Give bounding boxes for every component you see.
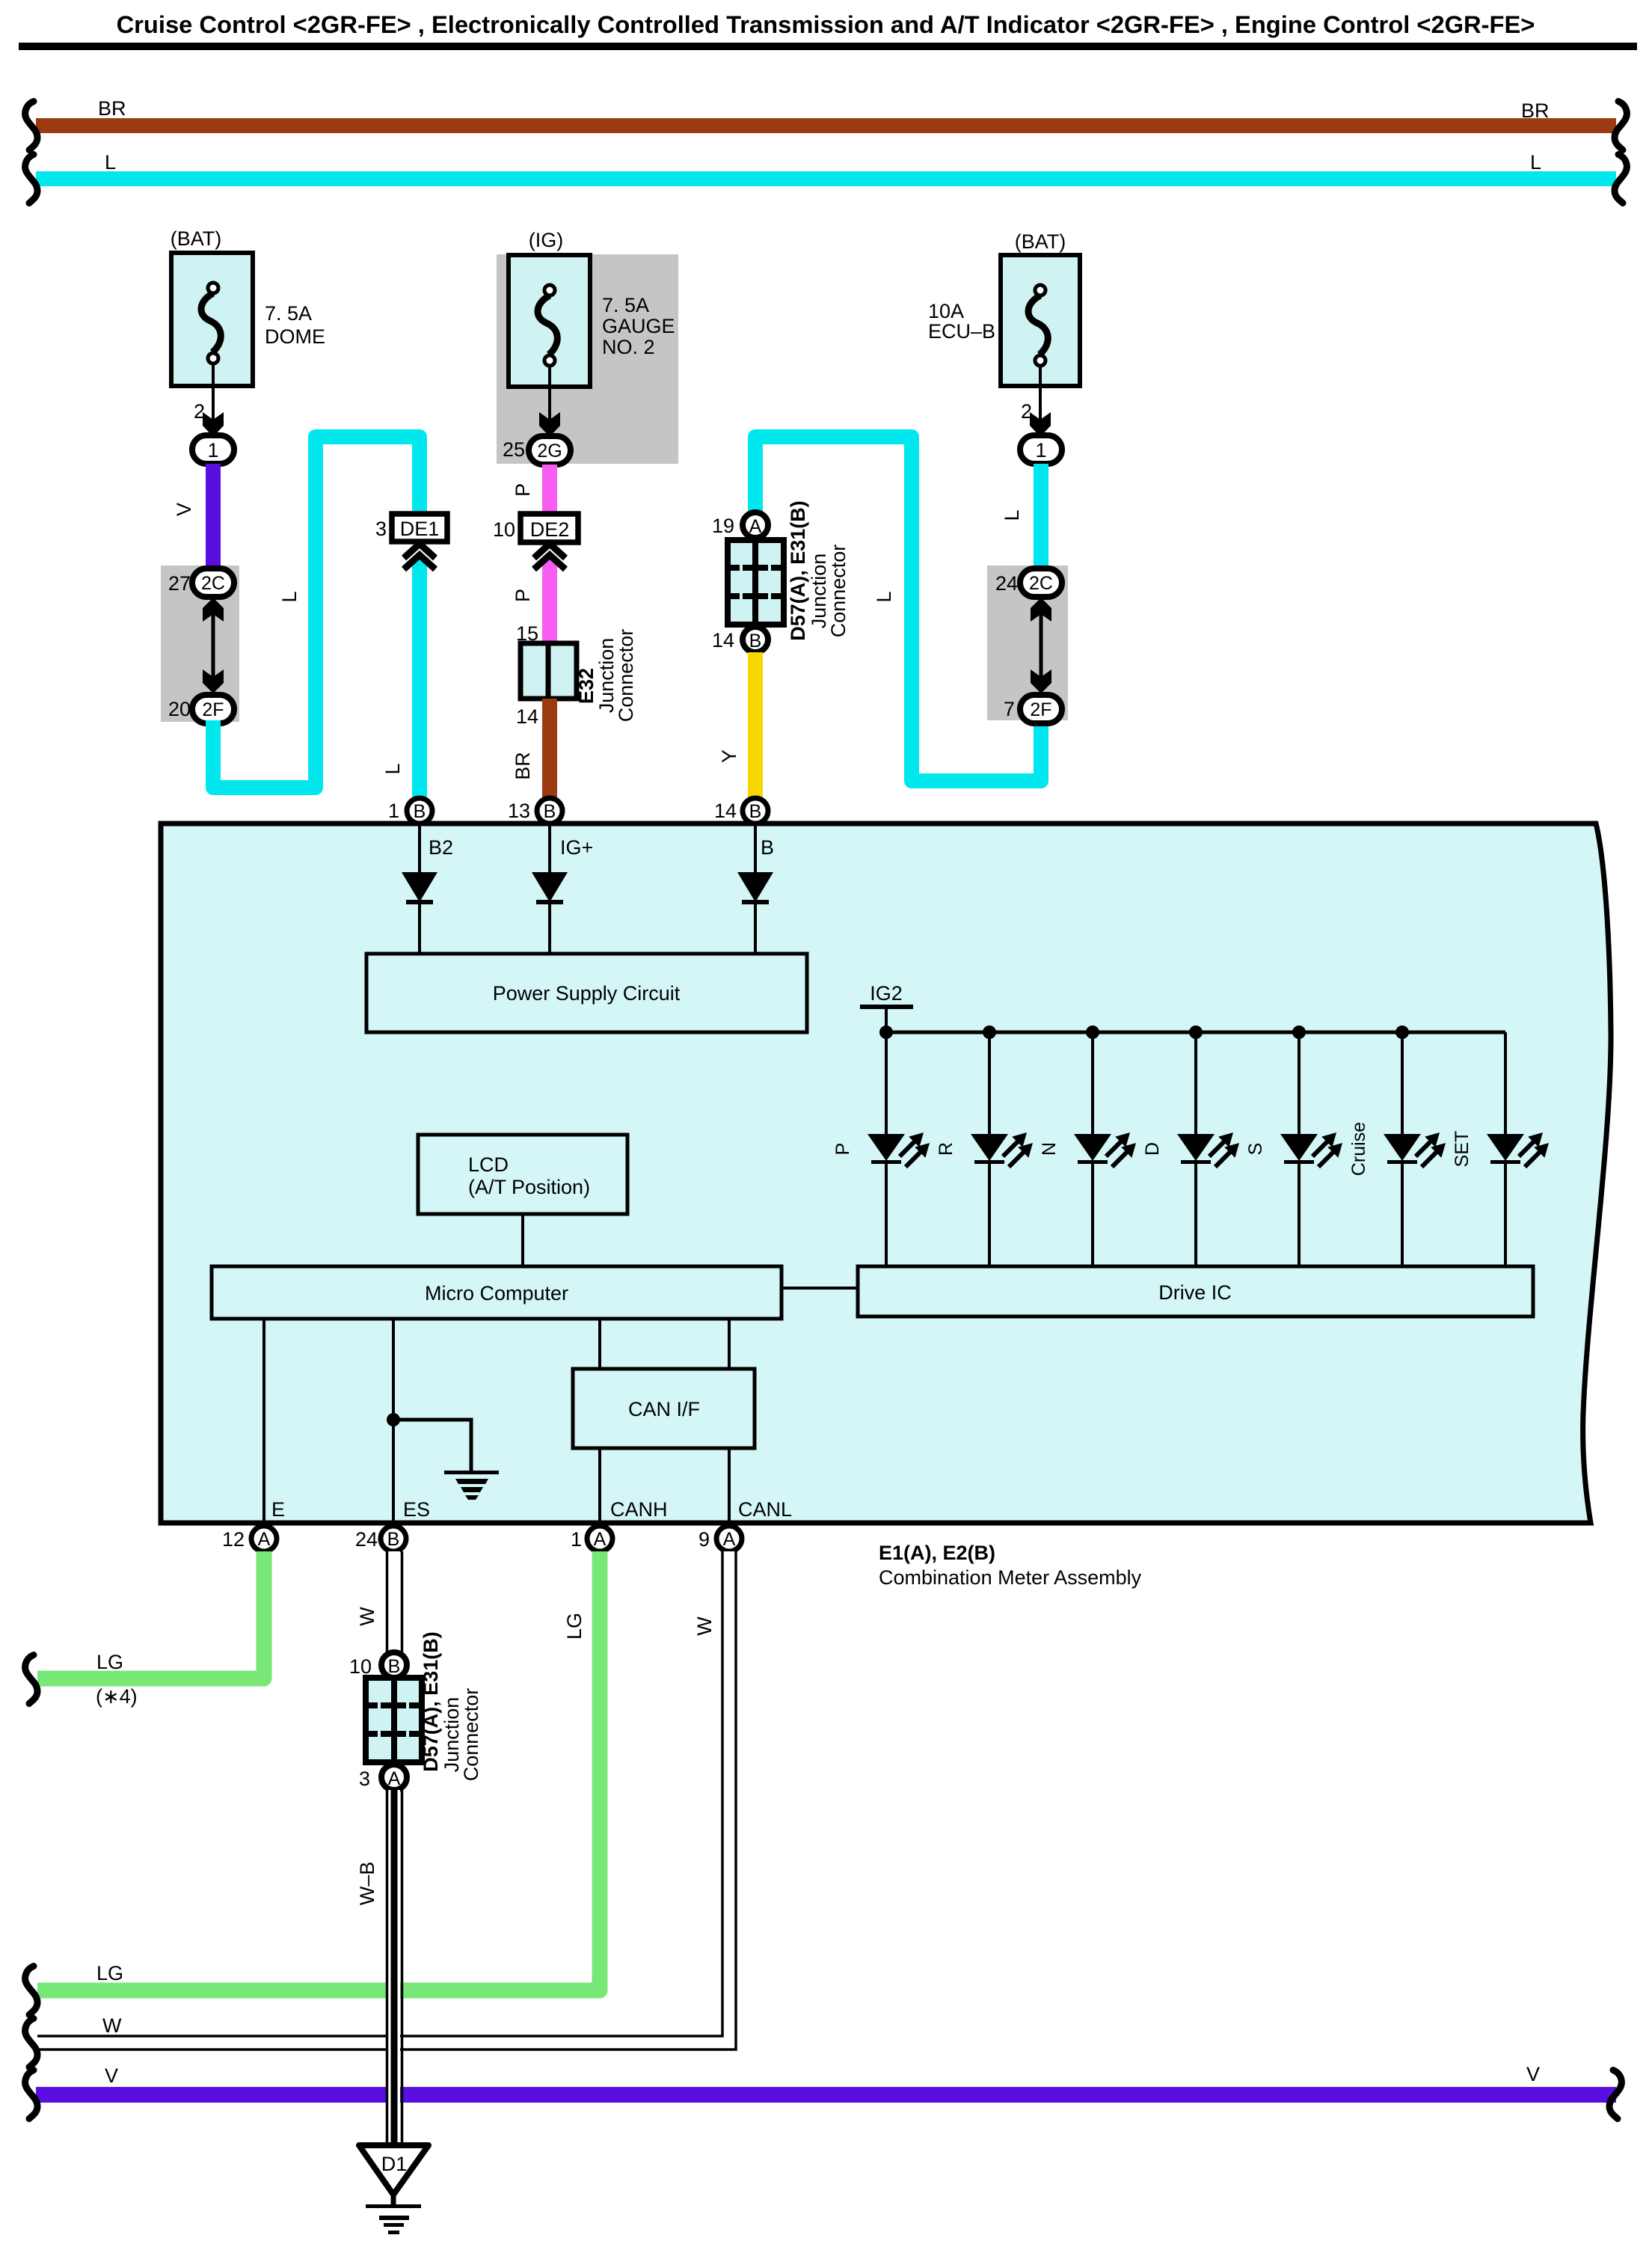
LED S xyxy=(1245,1032,1342,1266)
svg-text:LCD: LCD xyxy=(468,1153,509,1176)
wire B to diode xyxy=(754,824,757,872)
svg-text:Power Supply Circuit: Power Supply Circuit xyxy=(493,982,681,1005)
junction dot N xyxy=(1086,1026,1099,1039)
junction connector D57(A),E31(B) lower box xyxy=(366,1631,482,1781)
gray splice box right xyxy=(987,565,1068,720)
svg-text:9: 9 xyxy=(698,1528,710,1551)
svg-text:3: 3 xyxy=(375,518,387,540)
svg-text:P: P xyxy=(832,1143,853,1156)
svg-text:V: V xyxy=(173,503,195,516)
svg-text:B: B xyxy=(761,836,774,859)
junction connector D57 upper: pin B xyxy=(743,627,768,652)
wire L from 2F to DE1 xyxy=(213,437,420,788)
wire L from DE1 to pin 1B xyxy=(381,551,427,798)
svg-text:L: L xyxy=(1001,509,1023,521)
wire LG from pin 1 CANH xyxy=(37,1551,600,1990)
wire E internal xyxy=(262,1319,265,1526)
svg-text:BR: BR xyxy=(98,97,126,120)
svg-text:Connector: Connector xyxy=(460,1688,482,1782)
svg-text:B: B xyxy=(387,1529,400,1550)
svg-text:ECU–B: ECU–B xyxy=(928,320,995,343)
svg-text:10: 10 xyxy=(349,1655,372,1678)
continuation brace LG (*4) xyxy=(25,1655,37,1704)
pin circle A (CANH) xyxy=(587,1526,612,1551)
net IG2 xyxy=(860,982,913,1032)
pin circle B (B2) xyxy=(407,798,432,824)
svg-text:R: R xyxy=(936,1142,956,1156)
svg-text:W–B: W–B xyxy=(356,1862,378,1906)
svg-text:BR: BR xyxy=(1521,99,1550,122)
arrow into 2G xyxy=(539,412,560,437)
wire B2 to diode xyxy=(418,824,421,872)
svg-text:1: 1 xyxy=(571,1528,582,1551)
svg-text:(IG): (IG) xyxy=(529,229,564,251)
svg-text:GAUGE: GAUGE xyxy=(602,315,675,337)
svg-text:E32: E32 xyxy=(575,668,598,704)
svg-text:DE1: DE1 xyxy=(400,518,440,540)
wire V (violet) xyxy=(173,464,221,567)
junction dot S xyxy=(1292,1026,1306,1039)
svg-text:CAN I/F: CAN I/F xyxy=(628,1398,700,1420)
continuation brace L right xyxy=(1615,155,1627,203)
wire CANL below CAN I/F xyxy=(728,1448,731,1526)
svg-text:L: L xyxy=(1530,151,1541,174)
wire ES internal xyxy=(392,1319,395,1526)
connector DE2 xyxy=(493,514,578,542)
svg-text:W: W xyxy=(356,1607,378,1626)
diode D-IG xyxy=(532,872,568,954)
svg-text:D: D xyxy=(1142,1142,1163,1156)
svg-text:L: L xyxy=(278,591,301,602)
junction dot IG2/P xyxy=(879,1026,893,1039)
svg-text:B: B xyxy=(544,801,556,822)
continuation brace V right xyxy=(1609,2070,1621,2119)
svg-text:7. 5A: 7. 5A xyxy=(602,294,649,316)
svg-text:1: 1 xyxy=(388,800,399,822)
wire IG+ to diode xyxy=(548,824,551,872)
svg-text:Cruise Control <2GR-FE> , Elec: Cruise Control <2GR-FE> , Electronically… xyxy=(117,10,1535,38)
arrow into connector 1 right xyxy=(1030,412,1051,437)
pin circle A (E) xyxy=(251,1526,277,1551)
svg-text:A: A xyxy=(723,1529,736,1550)
LED P xyxy=(832,1032,930,1266)
internal ground symbol xyxy=(444,1471,499,1500)
connector oval 2G xyxy=(529,436,571,465)
svg-text:Cruise: Cruise xyxy=(1348,1122,1369,1176)
LED N xyxy=(1039,1032,1136,1266)
svg-text:P: P xyxy=(512,589,534,602)
svg-text:A: A xyxy=(749,516,762,537)
svg-text:B: B xyxy=(749,631,762,652)
svg-text:7. 5A: 7. 5A xyxy=(265,302,312,325)
svg-text:Micro Computer: Micro Computer xyxy=(425,1282,568,1305)
continuation brace V left xyxy=(25,2070,37,2119)
wire W from pin 24 to D57 B xyxy=(356,1551,402,1652)
continuation brace W left xyxy=(25,2019,37,2067)
svg-text:Y: Y xyxy=(718,749,740,763)
fuse GAUGE NO.2 xyxy=(509,229,675,423)
svg-text:10A: 10A xyxy=(928,300,964,322)
svg-text:7: 7 xyxy=(1004,698,1015,720)
connector oval 2C (right) xyxy=(1020,568,1062,597)
wire L from D57-A over to 2F right xyxy=(755,437,1041,781)
chevron under DE1 xyxy=(404,544,435,569)
svg-text:1: 1 xyxy=(207,439,218,462)
wire BR bus top xyxy=(36,97,1616,133)
svg-text:(BAT): (BAT) xyxy=(171,227,222,250)
wire L below oval 1 right xyxy=(1001,464,1048,568)
ground symbol below D1 xyxy=(366,2195,421,2234)
continuation brace LG left xyxy=(25,1966,37,2015)
connector oval 1 (right) xyxy=(1020,435,1062,464)
wire P upper xyxy=(512,465,557,514)
svg-text:LG: LG xyxy=(563,1613,586,1640)
svg-text:A: A xyxy=(258,1529,271,1550)
pin circle B (B) xyxy=(743,798,768,824)
junction connector D57(A),E31(B) upper box xyxy=(728,500,850,641)
continuation brace BR left xyxy=(25,102,37,150)
svg-text:13: 13 xyxy=(508,800,530,822)
ground D1 triangle xyxy=(359,2145,429,2195)
svg-text:IG+: IG+ xyxy=(560,836,593,859)
wire LG from pin 12 (*4) xyxy=(37,1551,264,1708)
LED R xyxy=(936,1032,1033,1266)
svg-text:IG2: IG2 xyxy=(870,982,903,1005)
chevron under DE2 xyxy=(534,544,565,569)
svg-text:B2: B2 xyxy=(429,836,453,859)
svg-text:14: 14 xyxy=(714,800,737,822)
svg-text:DOME: DOME xyxy=(265,325,325,348)
fuse ECU-B 10A xyxy=(928,230,1080,423)
svg-text:(BAT): (BAT) xyxy=(1015,230,1066,253)
power supply circuit block xyxy=(366,954,807,1032)
svg-text:V: V xyxy=(1526,2063,1540,2085)
wire CANL internal xyxy=(728,1319,731,1369)
svg-text:N: N xyxy=(1039,1142,1060,1156)
svg-text:19: 19 xyxy=(712,515,734,537)
wire LCD to micro computer xyxy=(521,1214,524,1266)
wire CANH below CAN I/F xyxy=(598,1448,601,1526)
svg-text:27: 27 xyxy=(168,572,191,595)
svg-text:Connector: Connector xyxy=(827,545,850,638)
svg-text:CANH: CANH xyxy=(610,1498,668,1521)
svg-text:24: 24 xyxy=(355,1528,378,1551)
svg-text:E1(A), E2(B): E1(A), E2(B) xyxy=(879,1542,995,1564)
svg-text:14: 14 xyxy=(712,629,734,652)
wire CANH internal xyxy=(598,1319,601,1369)
double-headed arrow between 2C and 2F xyxy=(203,598,224,693)
junction connector E32 xyxy=(521,629,637,723)
label E1(A), E2(B) Combination Meter Assembly xyxy=(879,1542,1142,1589)
connector oval 2C (left) xyxy=(192,568,234,597)
wire BR to pin 13B xyxy=(512,699,557,798)
junction dot Cruise xyxy=(1395,1026,1409,1039)
pin circle A (CANL) xyxy=(716,1526,742,1551)
svg-text:Drive IC: Drive IC xyxy=(1158,1281,1232,1304)
continuation brace L left xyxy=(25,155,37,203)
micro computer block xyxy=(212,1266,782,1319)
svg-text:B: B xyxy=(414,801,426,822)
title xyxy=(19,10,1637,50)
connector oval 2F (left) xyxy=(192,695,234,723)
svg-text:10: 10 xyxy=(493,518,515,541)
svg-text:LG: LG xyxy=(96,1962,123,1984)
svg-text:14: 14 xyxy=(516,705,538,728)
svg-text:L: L xyxy=(873,591,895,602)
svg-text:24: 24 xyxy=(995,572,1018,595)
svg-text:NO. 2: NO. 2 xyxy=(602,336,655,358)
wire W from pin 9 CANL xyxy=(37,1551,736,2050)
svg-text:20: 20 xyxy=(168,698,191,720)
junction connector D57 lower: pin A xyxy=(381,1765,407,1790)
svg-text:A: A xyxy=(388,1768,401,1789)
svg-text:2C: 2C xyxy=(201,573,225,594)
double-headed arrow between 2C and 2F right xyxy=(1031,598,1051,693)
LED Cruise xyxy=(1348,1032,1446,1266)
LED SET xyxy=(1452,1032,1549,1266)
svg-text:L: L xyxy=(105,151,116,174)
wire P lower xyxy=(512,551,557,643)
svg-text:BR: BR xyxy=(512,752,534,780)
svg-text:25: 25 xyxy=(503,438,525,461)
svg-text:P: P xyxy=(512,483,534,497)
svg-text:Connector: Connector xyxy=(615,629,637,723)
svg-text:1: 1 xyxy=(1035,439,1046,462)
svg-text:B: B xyxy=(749,801,762,822)
LED D xyxy=(1142,1032,1239,1266)
diode D-B xyxy=(737,872,773,954)
fuse DOME 7.5A xyxy=(171,227,325,423)
LED supply bus xyxy=(885,1031,1505,1034)
diode D-B2 xyxy=(402,872,437,954)
svg-text:2F: 2F xyxy=(202,699,224,720)
svg-text:D1: D1 xyxy=(381,2153,408,2175)
svg-text:B: B xyxy=(388,1656,401,1677)
LCD block xyxy=(418,1135,627,1214)
connector DE1 xyxy=(375,514,447,542)
wire L bus top xyxy=(36,151,1616,186)
svg-text:2G: 2G xyxy=(537,441,562,462)
wire W-B to ground D1 xyxy=(356,1790,402,2142)
wire V bus bottom xyxy=(36,2063,1616,2103)
junction dot R xyxy=(983,1026,996,1039)
wire to internal ground xyxy=(393,1420,471,1472)
svg-text:CANL: CANL xyxy=(738,1498,792,1521)
fuse GAUGE NO.2 gray block xyxy=(497,254,678,464)
svg-text:(A/T Position): (A/T Position) xyxy=(468,1176,590,1198)
svg-text:W: W xyxy=(693,1616,716,1636)
junction connector D57 lower: pin B xyxy=(381,1652,407,1678)
pin circle B (IG+) xyxy=(537,798,562,824)
svg-text:ES: ES xyxy=(403,1498,430,1521)
combination meter assembly box xyxy=(161,824,1611,1523)
svg-text:Combination Meter Assembly: Combination Meter Assembly xyxy=(879,1566,1142,1589)
drive IC block xyxy=(858,1266,1533,1316)
svg-text:D57(A), E31(B): D57(A), E31(B) xyxy=(787,500,809,641)
svg-text:DE2: DE2 xyxy=(530,518,570,541)
svg-text:D57(A), E31(B): D57(A), E31(B) xyxy=(420,1631,442,1772)
svg-text:A: A xyxy=(594,1529,607,1550)
connector oval 2F (right) xyxy=(1020,695,1062,723)
junction dot ES ground xyxy=(387,1413,400,1426)
junction dot D xyxy=(1189,1026,1203,1039)
svg-text:2F: 2F xyxy=(1030,699,1051,720)
connector oval 1 (left) xyxy=(192,435,234,464)
svg-text:3: 3 xyxy=(359,1768,370,1790)
CAN I/F block xyxy=(573,1369,755,1448)
svg-text:SET: SET xyxy=(1452,1131,1473,1168)
arrow into connector 1 xyxy=(203,412,224,437)
svg-text:(∗4): (∗4) xyxy=(96,1685,138,1708)
svg-text:E: E xyxy=(271,1498,285,1521)
junction connector D57(A),E31(B) upper: pin A xyxy=(743,512,768,538)
svg-text:V: V xyxy=(105,2064,118,2087)
continuation brace BR right xyxy=(1615,102,1627,150)
svg-text:W: W xyxy=(102,2014,122,2037)
svg-text:2C: 2C xyxy=(1029,573,1053,594)
svg-text:L: L xyxy=(381,763,404,774)
svg-text:S: S xyxy=(1245,1143,1266,1156)
svg-text:12: 12 xyxy=(222,1528,245,1551)
pin circle B (ES) xyxy=(381,1526,406,1551)
gray splice box left xyxy=(161,565,239,722)
wire micro computer to drive IC xyxy=(782,1287,858,1290)
wire Y xyxy=(718,652,763,798)
svg-text:LG: LG xyxy=(96,1651,123,1673)
